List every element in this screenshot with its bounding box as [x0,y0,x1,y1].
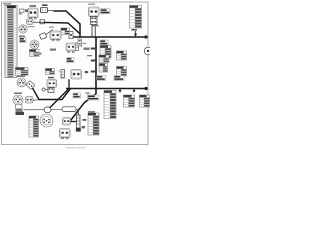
wire stub C13 to Bus2 [68,79,70,88]
round connector R1 [30,40,39,49]
inline fuse F1 [76,115,80,128]
body under R4 [16,105,23,109]
connector C5 (2-pin) [50,31,61,41]
label R3 [17,76,25,77]
label near fuse [83,119,87,121]
text label left mid [38,53,42,56]
svg-text:Powertrain Control 7: Powertrain Control 7 [66,146,88,149]
connector C12 (2-pin) [60,129,71,139]
connector pin table T1 (left column list) [5,6,17,78]
round connector R3 [17,78,26,87]
Bus2 junction arrow 1 [119,89,121,93]
inline component right of C6 [76,43,79,51]
connector C11 (2-pin) [63,118,71,126]
wire W2 (to node V1) [45,22,81,33]
label L1 [101,9,111,14]
label table T13 [117,67,127,77]
wire Bus2 (lower horizontal) [66,88,146,90]
label table T5 [99,64,108,73]
connector C6 (2-pin) [66,43,76,52]
inline connector at Bus1 left end [69,32,73,39]
small table mid [46,69,55,75]
label at V2 bend [88,95,100,100]
wire X2: Bus2 to grommet [48,89,70,111]
Bus2 junction arrow 2 [133,89,135,93]
border frame [2,2,149,145]
wire from T2 to Bus1 [134,31,136,36]
Bus1 end cap [144,35,147,38]
faint text a [28,26,35,27]
label under T2 [132,29,138,31]
small table under R1 [30,50,40,57]
inline connector pair P1 [20,9,30,12]
fuse terminal blob [76,128,81,132]
connector pin table T10 [88,113,99,135]
label table mid-left [16,68,29,76]
label table T7 [124,95,135,107]
tiny text below Bus1 [83,43,87,44]
connector pin table T2 [130,6,142,29]
wire X1: V2 to connector C11 [71,94,97,121]
label C8 [48,77,54,79]
circle connector at right edge [144,47,152,55]
label T14 above Bus2 [97,76,106,81]
label table T4 [99,55,109,63]
wire Bus1 (main horizontal) [73,36,146,38]
tiny label x [86,93,90,94]
wire C7 to WD [33,99,40,102]
wire WD from plug to Bus2 [33,88,71,100]
label R4 [14,93,22,94]
connector C8 (2-pin with body) [47,80,57,88]
title text block [3,3,11,4]
inline connector on W2 [40,20,45,24]
label near C6 [79,45,82,46]
stub nub 1 [91,48,95,50]
label below Bus1 a [84,48,90,50]
connector C7 (2-pin) [26,97,34,104]
label C2 [42,4,48,6]
faint text b [49,27,54,28]
label above T11 [16,112,25,115]
small element below Bus1 at x79 [78,39,82,46]
round connector R4 [13,95,23,105]
wire from C2 [48,9,54,12]
stub nub 2 [91,60,95,62]
label R0 [19,36,25,37]
fuse stub from X1 [77,111,79,116]
Bus2 end cap [144,87,147,90]
connector pin table T6 [104,91,116,119]
connector C3 (2-pin small) [27,19,34,25]
label right of C13 [85,71,89,73]
round connector R0 [19,25,27,33]
wire C4 pin2 to Bus1 [94,25,96,38]
inline elongated component [62,107,76,112]
label table L2 (above Bus1) [61,28,70,35]
connector C4 (2-pin with body) [89,7,100,17]
label table T12 [117,51,127,60]
label below fuse right [82,126,86,128]
label P1a [19,13,23,14]
label table T8 [140,95,150,107]
thin wire chain [24,109,80,111]
inline oval grommet [44,107,51,113]
round connector R5 (DLC) [40,114,53,127]
tiny label left of V2 [87,55,92,56]
label below Bus1 b [100,40,108,45]
inline bar component C13a [58,70,64,79]
label R0b [20,38,27,43]
text block below C5 [50,49,56,51]
connector C13 (2-pin) [71,70,82,80]
connector pin table T11 [29,116,39,137]
stub nub 3 [91,71,95,73]
wire W1 thick (to node V1) [54,11,81,37]
label rows under R4 [16,109,24,113]
label above C13 [67,58,75,63]
text above Bus1 right [93,25,99,26]
connector C2 (side view) [41,8,48,13]
label mid low [73,93,81,98]
connector C4 body [91,17,98,25]
connector C8 body [48,88,54,93]
connector C1 (2-pin) [28,8,38,19]
label table T3 [100,46,111,59]
label above T10 [88,111,95,112]
wire C11 to fuse [71,121,77,123]
small element left of C8 [42,88,48,91]
faint text above C4 [88,4,95,5]
angled plug on wire WD [26,81,35,90]
wire W2 thin lead [33,21,45,23]
wire C4 pin1 to Bus1 [91,25,93,38]
label C1 [30,5,37,7]
label T9 above Bus2 [114,76,124,81]
wire V2 vertical [95,37,97,94]
small angled connector with wire [39,30,53,40]
